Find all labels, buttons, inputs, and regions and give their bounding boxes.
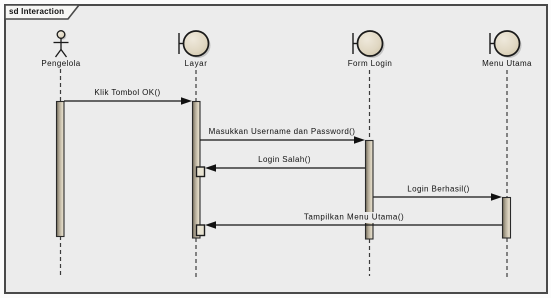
nested activation square 1 on Layar: [197, 167, 205, 177]
boundary icon Menu Utama: [490, 31, 522, 58]
lifeline dashed: Pengelola: [60, 69, 62, 101]
boundary icon Form Login: [353, 31, 385, 58]
message 3: Login Salah(): [205, 155, 365, 172]
svg-text:Klik Tombol OK(): Klik Tombol OK(): [94, 88, 160, 97]
message 1: Klik Tombol OK(): [64, 88, 192, 105]
frame label tab "sd Interaction": [5, 5, 79, 19]
svg-text:Form Login: Form Login: [348, 59, 392, 68]
message 5: Tampilkan Menu Utama(): [205, 212, 502, 229]
svg-text:Tampilkan Menu Utama(): Tampilkan Menu Utama(): [304, 213, 404, 222]
actor Pengelola: [54, 31, 69, 57]
activation bar Layar: [193, 102, 201, 239]
svg-text:Menu Utama: Menu Utama: [482, 59, 532, 68]
activation bar Form Login: [366, 141, 374, 240]
lifeline dashed: Layar: [195, 70, 197, 101]
nested activation square 2 on Layar: [197, 225, 205, 236]
svg-text:Login Berhasil(): Login Berhasil(): [407, 185, 469, 194]
lifeline dashed: Menu Utama: [506, 70, 508, 197]
boundary icon Layar: [179, 31, 211, 58]
svg-text:Layar: Layar: [184, 59, 207, 68]
message 4: Login Berhasil(): [374, 185, 503, 201]
svg-text:Pengelola: Pengelola: [41, 59, 80, 68]
activation bar Pengelola: [57, 102, 65, 237]
svg-text:sd Interaction: sd Interaction: [9, 7, 64, 16]
message 2: Masukkan Username dan Password(): [200, 127, 365, 144]
svg-text:Masukkan Username dan Password: Masukkan Username dan Password(): [209, 127, 356, 136]
activation bar Menu Utama: [503, 198, 511, 239]
lifeline dashed: Form Login: [369, 70, 371, 140]
svg-text:Login Salah(): Login Salah(): [258, 155, 311, 164]
